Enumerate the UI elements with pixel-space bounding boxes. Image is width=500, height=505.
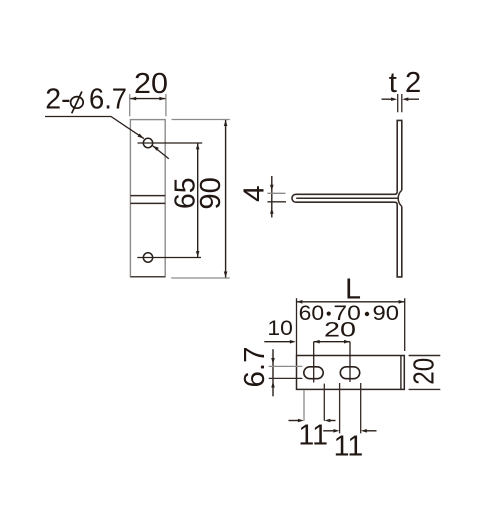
4 dim line [271, 176, 273, 218]
svg-text:60: 60 [299, 301, 325, 325]
web edge line plan view [400, 356, 402, 390]
svg-text:20: 20 [409, 358, 441, 385]
diameter symbol [71, 97, 84, 109]
plate bottom edge front view (darker) [130, 276, 165, 278]
svg-text:11: 11 [334, 431, 364, 463]
90 dimension line [225, 120, 227, 278]
T web pinch at flange joint [398, 190, 402, 206]
L extension line left (also plate edge extension) [296, 298, 298, 355]
leader arrowhead 2 [152, 146, 159, 151]
4 dim extension lines [268, 192, 286, 194]
t dim arrows [382, 98, 420, 100]
T web upper and right outline [397, 120, 402, 191]
10 dim line with outside arrow [264, 341, 290, 343]
slot 1 length extension lines [303, 390, 305, 421]
plate outline plan view [297, 356, 405, 390]
width 20 dimension line [130, 98, 165, 100]
L dim line [296, 301, 404, 303]
svg-text:90: 90 [373, 301, 400, 325]
svg-text:20: 20 [134, 68, 168, 100]
t dim extension lines [398, 94, 402, 112]
slot hole 2 [340, 367, 359, 379]
slot 1 length 11 dim arrows [289, 420, 299, 422]
slot 1 center extension line [313, 342, 315, 383]
svg-text:11: 11 [298, 420, 328, 452]
svg-text:6.7: 6.7 [89, 83, 127, 115]
svg-text:65: 65 [169, 178, 201, 210]
hole bottom [143, 253, 152, 262]
svg-text:4: 4 [238, 185, 270, 202]
hole top center line [138, 142, 203, 144]
hole top [143, 138, 152, 147]
T web lower outline [397, 205, 402, 277]
leader 2-phi6.7 underline [45, 117, 144, 139]
hole bottom center line [137, 257, 201, 259]
slot 2 center extension line [349, 342, 351, 382]
svg-text:10: 10 [267, 316, 293, 340]
svg-text:20: 20 [324, 317, 356, 341]
T flange middle line [296, 197, 398, 199]
svg-text:6.7: 6.7 [239, 347, 271, 388]
plate outline front view [130, 120, 165, 277]
L extension line right [404, 298, 406, 351]
svg-text:2-: 2- [45, 83, 70, 115]
20 pitch dim line [314, 341, 350, 343]
slot 2 length 11 dim arrows [323, 430, 333, 432]
90 dim extension lines [171, 120, 230, 279]
6.7 extension lines [269, 365, 303, 367]
svg-text:t 2: t 2 [389, 67, 422, 99]
flange seam line lower [130, 202, 165, 204]
65 dimension line [197, 143, 199, 257]
leader tail through hole [152, 146, 168, 159]
flange seam line upper [130, 195, 165, 197]
leader arrowhead at hole [138, 134, 144, 139]
6.7 dim line [272, 349, 274, 396]
slot hole 1 [304, 367, 323, 379]
slot 2 length extension lines [340, 383, 361, 433]
T flange outline with round end [292, 192, 397, 205]
plate width 20 extension lines right [409, 356, 441, 390]
width 20 extension lines [130, 94, 166, 116]
